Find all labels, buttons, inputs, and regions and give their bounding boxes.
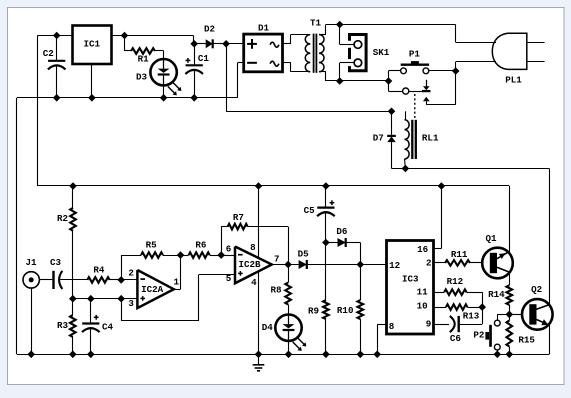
resistor R9 — [308, 243, 329, 355]
svg-text:R2: R2 — [57, 213, 68, 224]
node junction IC1-gnd — [88, 94, 96, 102]
svg-text:2: 2 — [128, 268, 134, 279]
ic IC3 — [387, 241, 434, 335]
transformer T1 — [305, 18, 324, 73]
wire R2 — [72, 186, 74, 208]
node junction pin2 — [117, 276, 125, 284]
svg-text:D2: D2 — [204, 24, 215, 35]
bridge rectifier D1 — [244, 22, 283, 72]
svg-text:1: 1 — [174, 277, 180, 288]
svg-text:C2: C2 — [43, 48, 54, 59]
node junction D4-gnd — [285, 351, 293, 359]
wire relay bottom to right rail — [392, 169, 550, 305]
svg-text:12: 12 — [389, 260, 400, 271]
wire D1 minus to rail — [238, 63, 244, 98]
node junction D6-left — [322, 239, 330, 247]
node junction SK1-top — [336, 21, 344, 29]
resistor R1 — [125, 36, 164, 65]
wire SK1 pin2 — [340, 63, 355, 82]
op-amp IC2B — [226, 242, 280, 288]
node junction R1-top — [121, 32, 129, 40]
wire J1 down — [31, 288, 33, 354]
capacitor C6 — [434, 307, 483, 344]
node junction R3-top — [69, 295, 77, 303]
wire pin6 — [221, 255, 235, 257]
diode D5 — [298, 249, 361, 270]
node junction pin8-gnd — [373, 351, 381, 359]
resistor R10 — [337, 265, 363, 355]
node junction C1-top — [190, 40, 198, 48]
diode D7 — [373, 111, 396, 168]
svg-text:T1: T1 — [310, 18, 322, 29]
ic IC1 — [73, 26, 112, 65]
diode D2 — [194, 24, 226, 49]
resistor R12 — [434, 276, 483, 307]
wire SK1 pin1 — [340, 25, 355, 45]
svg-text:3: 3 — [128, 298, 134, 309]
wire contact seat — [409, 90, 431, 92]
node junction C1-bottom — [190, 94, 198, 102]
resistor R5 — [141, 240, 181, 258]
node junction J1-gnd — [27, 351, 35, 359]
capacitor C4 — [82, 299, 113, 355]
capacitor C3 — [39, 257, 87, 289]
svg-text:D3: D3 — [136, 72, 148, 83]
svg-text:R13: R13 — [463, 310, 480, 321]
svg-text:SK1: SK1 — [373, 47, 390, 58]
node junction D6-R10 — [357, 261, 365, 269]
svg-text:R1: R1 — [138, 54, 150, 65]
resistor R13 — [434, 304, 483, 321]
node junction pin4-gnd — [255, 351, 263, 359]
svg-text:R5: R5 — [146, 240, 158, 251]
svg-text:R4: R4 — [93, 265, 105, 276]
svg-text:D6: D6 — [336, 226, 347, 237]
wire ground rail — [17, 354, 549, 356]
wire pin8 riser — [258, 186, 260, 258]
svg-text:8: 8 — [250, 242, 256, 253]
node junction C4-top — [87, 295, 95, 303]
node junction R10-gnd — [357, 351, 365, 359]
node junction R7-left — [217, 251, 225, 259]
wire P1 right — [429, 70, 456, 72]
wire T1 secondary bottom — [319, 72, 388, 82]
wire T1 secondary top — [319, 25, 456, 35]
svg-text:D5: D5 — [298, 249, 310, 260]
wire relay pole — [389, 81, 403, 92]
transistor Q2 — [522, 284, 553, 330]
svg-text:R8: R8 — [270, 284, 282, 295]
node junction C5-rail — [322, 182, 330, 190]
resistor R2 — [57, 208, 76, 299]
wire pin3 net — [73, 298, 121, 300]
svg-text:IC1: IC1 — [84, 39, 101, 50]
resistor R8 — [270, 265, 290, 315]
svg-text:PL1: PL1 — [505, 74, 522, 85]
resistor R14 — [488, 273, 512, 315]
svg-text:C5: C5 — [304, 205, 316, 216]
node junction P1-left — [385, 77, 393, 85]
wire P2 top — [497, 314, 509, 320]
resistor R6 — [181, 240, 222, 258]
svg-text:R7: R7 — [233, 212, 244, 223]
svg-text:P1: P1 — [409, 49, 421, 60]
wire pin16 — [434, 186, 442, 249]
wire to plug top — [456, 25, 497, 43]
svg-text:6: 6 — [226, 243, 232, 254]
resistor R3 — [57, 299, 76, 355]
relay contact arrows — [423, 80, 456, 105]
node junction D3-gnd — [160, 94, 168, 102]
svg-text:D1: D1 — [258, 22, 270, 33]
node junction pin3 — [117, 295, 125, 303]
wire Q2 emitter — [549, 325, 551, 354]
svg-text:R14: R14 — [488, 289, 505, 300]
wire pin5 link — [121, 275, 235, 321]
node junction R2-top — [69, 182, 77, 190]
svg-text:IC2B: IC2B — [238, 259, 261, 270]
svg-text:11: 11 — [417, 286, 429, 297]
resistor R7 — [221, 212, 288, 265]
svg-text:R12: R12 — [447, 276, 464, 287]
svg-text:10: 10 — [417, 300, 428, 311]
svg-text:RL1: RL1 — [422, 132, 439, 143]
diode D6 — [326, 226, 361, 265]
socket SK1 — [350, 35, 390, 71]
capacitor C1 — [185, 44, 209, 98]
node junction R14-R15 — [506, 311, 514, 319]
node junction RL1-bottom — [402, 165, 410, 173]
pushbutton P1 — [401, 49, 430, 74]
node junction R5-R6 — [177, 251, 185, 259]
svg-text:16: 16 — [417, 244, 428, 255]
node junction P2-gnd — [494, 351, 502, 359]
led D3 — [136, 51, 181, 98]
wire P1-right vertical — [455, 62, 457, 105]
node junction R15-gnd — [506, 351, 514, 359]
svg-text:R6: R6 — [195, 240, 206, 251]
svg-text:R10: R10 — [337, 305, 354, 316]
svg-text:7: 7 — [274, 254, 280, 265]
svg-text:C4: C4 — [102, 322, 114, 333]
wire dc feed vertical — [226, 44, 391, 112]
relay contact pole — [403, 88, 409, 94]
node junction RL1-top — [388, 108, 396, 116]
wire pin12 — [360, 264, 386, 266]
wire IC1 ground pin — [91, 64, 93, 98]
ground — [253, 354, 265, 371]
wire R5 riser — [121, 255, 141, 280]
svg-text:R11: R11 — [451, 249, 468, 260]
jack J1 — [23, 257, 39, 288]
node junction C2-top — [53, 32, 61, 40]
node junction IC3-16-rail — [438, 182, 446, 190]
op-amp IC2A — [128, 268, 179, 309]
dashed mechanical link — [414, 94, 416, 118]
wire mid supply rail — [38, 185, 510, 187]
resistor R15 — [507, 314, 536, 354]
wire P1 left — [389, 71, 401, 82]
wire pin3 stub — [121, 298, 137, 300]
resistor R4 — [87, 265, 121, 283]
relay coil RL1 — [405, 111, 439, 168]
capacitor C5 — [304, 186, 335, 243]
svg-text:C3: C3 — [50, 257, 62, 268]
wire IC2B out — [272, 264, 299, 266]
node junction D2-cathode — [222, 40, 230, 48]
svg-text:R9: R9 — [308, 306, 319, 317]
node junction R3-gnd — [69, 351, 77, 359]
svg-text:4: 4 — [251, 277, 257, 288]
node junction R13-right — [478, 303, 486, 311]
node junction R9-gnd — [322, 351, 330, 359]
svg-text:R3: R3 — [57, 320, 69, 331]
svg-text:Q1: Q1 — [485, 233, 497, 244]
wire D1 to T1 primary — [283, 35, 311, 72]
svg-text:C6: C6 — [450, 333, 461, 344]
wire bottom rail top-section — [17, 98, 238, 355]
wire Q1 collector — [509, 186, 511, 252]
svg-text:8: 8 — [389, 321, 395, 332]
transistor Q1 — [482, 233, 513, 278]
svg-text:D7: D7 — [373, 132, 384, 143]
svg-text:J1: J1 — [25, 257, 37, 268]
wire top rail — [38, 36, 194, 187]
resistor R11 — [434, 249, 483, 266]
svg-text:P2: P2 — [473, 330, 484, 341]
plug PL1 — [492, 33, 544, 85]
node junction C2-bottom — [53, 94, 61, 102]
pushbutton P2 — [473, 320, 500, 350]
svg-text:C1: C1 — [198, 53, 210, 64]
wire pin4 drop — [258, 271, 260, 354]
node junction P1-right — [452, 67, 460, 75]
wire to plug bottom — [456, 61, 496, 63]
wire Q2 base — [509, 314, 522, 316]
wire P2 bottom — [497, 350, 499, 354]
svg-text:Q2: Q2 — [531, 284, 542, 295]
svg-text:2: 2 — [426, 257, 432, 268]
led D4 — [262, 315, 307, 355]
svg-text:IC3: IC3 — [402, 274, 419, 285]
wire IC2A out — [174, 255, 181, 289]
svg-text:9: 9 — [426, 318, 432, 329]
node junction pin8-rail — [255, 182, 263, 190]
wire pin2 stub — [121, 279, 137, 281]
svg-text:IC2A: IC2A — [141, 284, 164, 295]
svg-text:D4: D4 — [262, 322, 274, 333]
node junction SK1-bottom — [336, 77, 344, 85]
node junction IC2B-out — [284, 261, 292, 269]
capacitor C2 — [43, 36, 66, 98]
svg-text:5: 5 — [226, 273, 232, 284]
wire D2 to D1 — [226, 43, 244, 45]
wire pin8-IC3 — [377, 325, 386, 355]
node junction C4-gnd — [87, 351, 95, 359]
svg-text:R15: R15 — [518, 335, 535, 346]
wire C1 corner — [193, 36, 195, 44]
